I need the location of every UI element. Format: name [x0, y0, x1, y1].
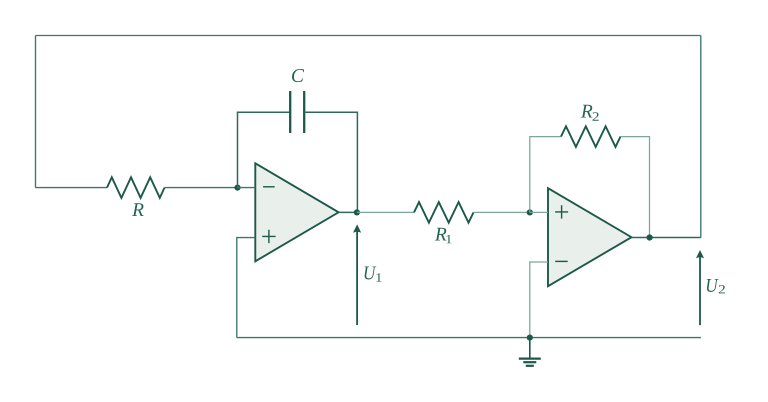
wire bottom rail [237, 337, 701, 339]
resistor R [107, 177, 165, 198]
wire capacitor to output node (right/down) [304, 112, 357, 212]
op-amp A2 plus sign (non-inverting input marker) [555, 205, 568, 218]
op-amp A1 minus sign (inverting input marker) [263, 186, 275, 188]
voltage arrow U2 [696, 250, 704, 325]
wire node B to op-amp A2 non-inverting input [530, 211, 548, 213]
op-amp A1 plus sign (non-inverting input marker) [262, 230, 275, 243]
label R [132, 203, 144, 216]
label U2 [707, 279, 725, 293]
label R1 [435, 228, 452, 244]
node A junction dot (inverting input of op-amp A1) [234, 185, 240, 191]
wire node A to op-amp A1 inverting input [238, 187, 256, 189]
resistor R2 [561, 126, 621, 147]
wire top feedback [36, 35, 701, 37]
label C [292, 69, 304, 82]
capacitor C [290, 91, 304, 133]
resistor R1 [414, 202, 474, 223]
label U1 [365, 267, 382, 282]
voltage arrow U1 [353, 224, 361, 325]
node U2 output junction dot [647, 234, 653, 240]
wire op-amp A2 output to right feedback corner [632, 237, 701, 239]
wire right feedback vertical [700, 36, 702, 238]
op-amp A2 (comparator) [548, 188, 632, 286]
node U1 output junction dot [354, 209, 360, 215]
node ground junction dot [527, 335, 533, 341]
wire op-amp A1 non-inverting input down to bottom rail [237, 238, 256, 338]
wire node U1 to resistor R1 [357, 211, 414, 213]
wire R2 feedback loop left/top [530, 137, 561, 213]
wire left vertical [35, 36, 37, 188]
ground [519, 338, 541, 366]
wire op-amp A2 inverting input down to ground node [530, 262, 548, 338]
label R2 [581, 105, 599, 121]
node B junction dot (non-inverting input of op-amp A2) [527, 209, 533, 215]
wire capacitor feedback loop left/up [238, 112, 291, 187]
op-amp A2 minus sign (inverting input marker) [555, 260, 568, 262]
wire op-amp A1 output stub [339, 211, 357, 213]
wire resistor R to node A [165, 187, 238, 189]
wire left to resistor R [36, 187, 108, 189]
wire R2 feedback loop right/down [621, 137, 650, 238]
op-amp A1 (integrator) [255, 163, 338, 261]
wire resistor R1 to node B [474, 211, 530, 213]
